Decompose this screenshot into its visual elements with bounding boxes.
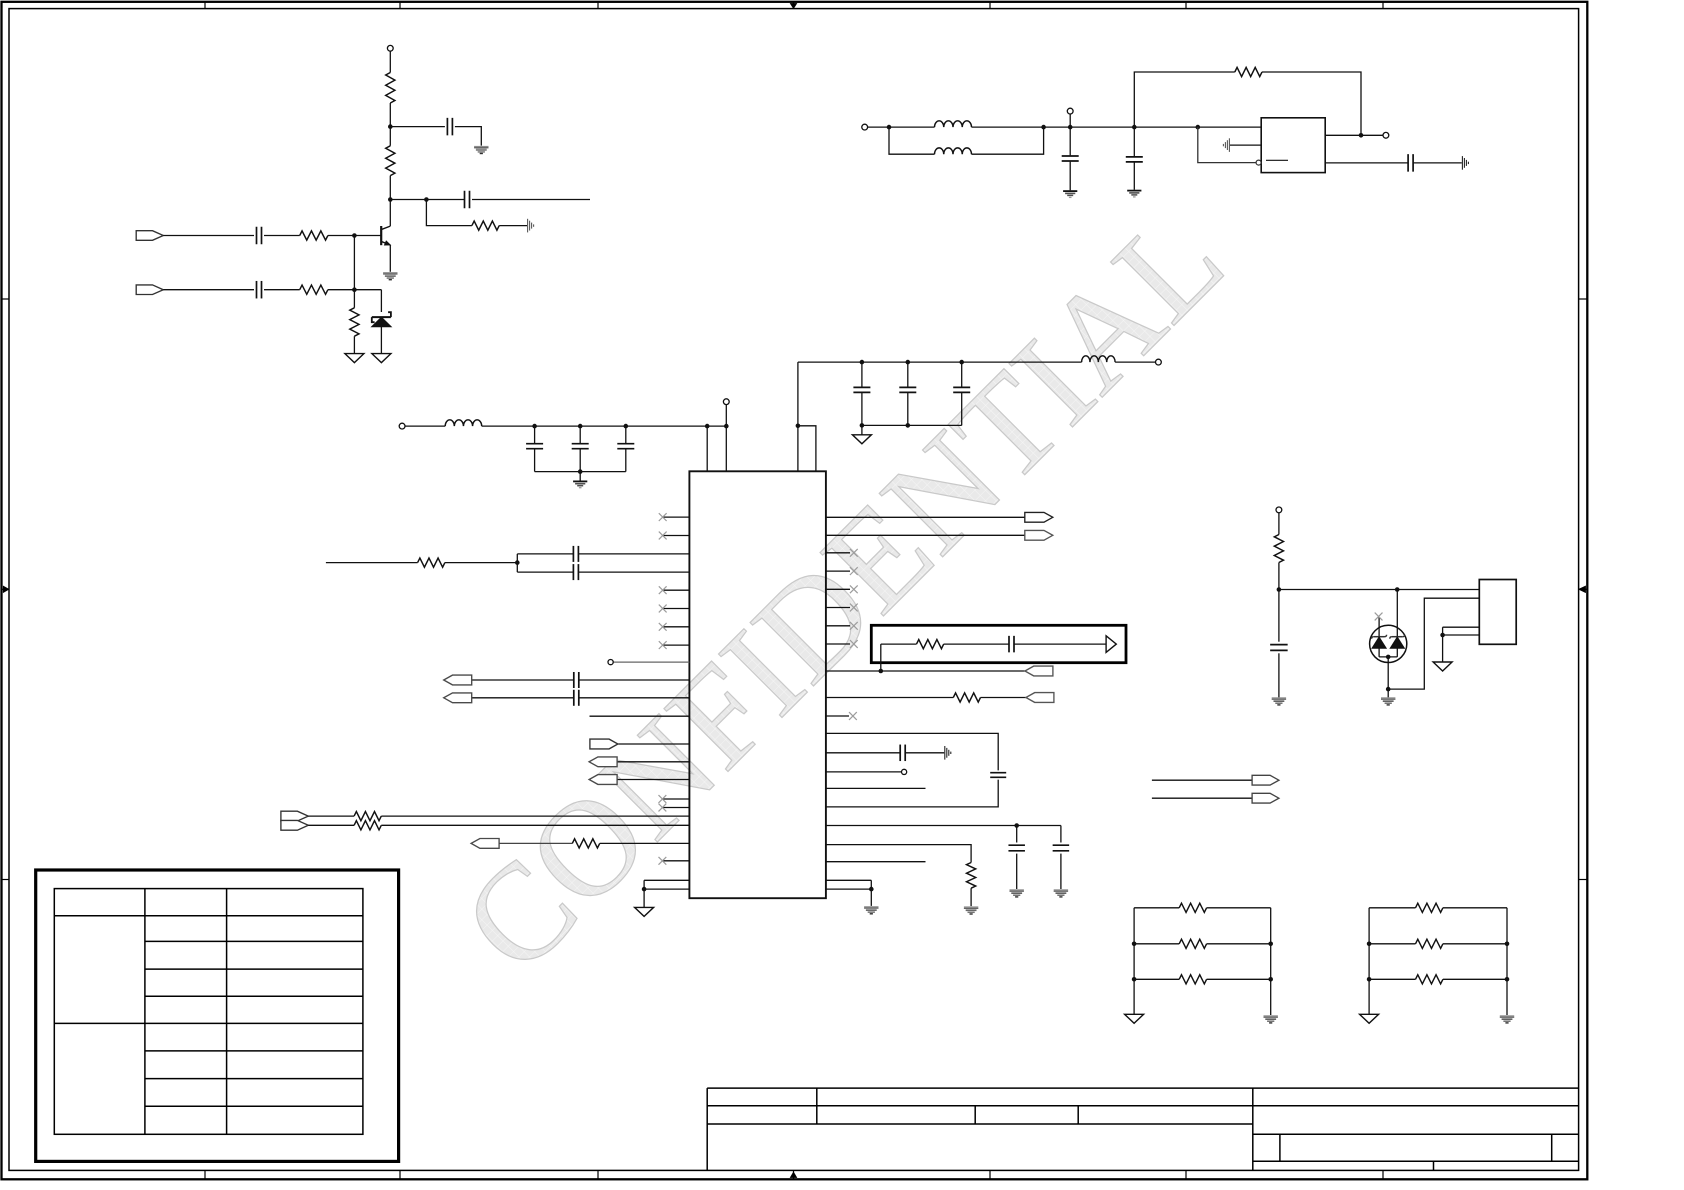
port P5 (filtered rail tap) xyxy=(1067,108,1073,114)
ground (earth, gray) emitter xyxy=(383,272,397,274)
feedback wire up/over xyxy=(1134,72,1235,127)
wire cap bus 2 xyxy=(862,424,962,426)
title block right cells xyxy=(1279,1134,1281,1161)
ground (rotated earth) after R4 xyxy=(527,219,529,233)
wire xyxy=(264,289,300,291)
wire xyxy=(868,126,889,128)
wire xyxy=(579,472,581,481)
wire IC top pin A xyxy=(706,426,708,471)
wire emitter xyxy=(389,245,391,272)
regulator U2 body xyxy=(1261,118,1325,173)
port P9 (rail2 source) xyxy=(1156,359,1162,365)
wire xyxy=(889,126,935,128)
port P8 (rail1 tap) xyxy=(723,399,729,405)
U1 left pin 15 with input tag xyxy=(617,779,689,781)
port P1 (VCC input, top-left) xyxy=(387,45,393,51)
node (IC supply pin A) xyxy=(705,424,710,429)
U1 right pin 15 (open) xyxy=(826,787,926,789)
net stub pair to tags (right middle) xyxy=(1152,779,1252,781)
ground (triangle) rnet left xyxy=(1360,1014,1379,1023)
wire xyxy=(389,127,391,146)
wire xyxy=(499,225,527,227)
wire + resistor R11 (u1 pin19) xyxy=(308,824,354,826)
zone arrow left center xyxy=(2,588,10,590)
node C10 xyxy=(624,424,629,429)
zone arrow bottom center xyxy=(793,1170,795,1179)
U1 right pin 5 (NC) xyxy=(826,588,850,590)
node (C5 tap) xyxy=(1068,125,1073,130)
port tag (diff2 b) xyxy=(444,693,472,703)
revision table grid xyxy=(54,889,363,1135)
rnet bottom row xyxy=(1369,978,1415,980)
ground (earth gray) U1 right xyxy=(864,906,878,908)
U1 right pin 20/21 to ground xyxy=(826,879,871,881)
U1 right pin 3 (NC) xyxy=(826,552,850,554)
D2 right diode xyxy=(1396,590,1398,638)
rnet mid row xyxy=(1134,943,1179,945)
U1 left pins 10-11 diff pair 2 with caps C16 C17 xyxy=(579,679,690,681)
wire diode common xyxy=(1379,656,1397,658)
node C12 xyxy=(906,360,911,365)
pin bubble (active-low enable) xyxy=(1256,160,1261,165)
node (IC supply pin B) xyxy=(724,424,729,429)
ground (earth black) under C5 xyxy=(1063,190,1077,192)
zone ticks right edge xyxy=(1579,298,1588,300)
U1 left pin 20 with tag + resistor R12 xyxy=(471,839,499,849)
U1 right pin 13 cap C20 to rotated earth xyxy=(826,752,900,754)
inductor L4 (rail2) xyxy=(1082,356,1116,362)
revision table outer frame xyxy=(36,870,399,1161)
U1 right pin 17 to caps C21 C22 xyxy=(826,825,1061,827)
U1 left pin 1 (NC) xyxy=(663,516,690,518)
wire xyxy=(389,103,391,127)
resistor R8 (feedback) xyxy=(1235,67,1262,76)
inductor L1 xyxy=(935,121,972,127)
node xyxy=(1386,687,1391,692)
capacitor C10 xyxy=(625,426,627,443)
IC U1 body xyxy=(689,471,826,898)
callout wire with resistor R13 and cap C18 xyxy=(881,643,917,645)
ground (triangle) J1 xyxy=(1433,662,1452,671)
node xyxy=(1386,655,1391,660)
wire rail 2 xyxy=(798,361,1082,363)
resistor R4 (to AC ground) xyxy=(472,221,499,230)
U1 left pin 8 (NC) xyxy=(663,644,690,646)
ground (rotated earth) at U2 bypass pin xyxy=(1230,144,1261,146)
node xyxy=(906,423,911,428)
wire cap bus xyxy=(535,471,626,473)
title block bottom strip tick xyxy=(1433,1161,1435,1170)
node (diode tap) xyxy=(1395,587,1400,592)
U1 right pin 2 to tag xyxy=(826,534,1025,536)
wire xyxy=(1387,689,1389,697)
node (bus center) xyxy=(578,469,583,474)
U1 left pin 22 (ground) xyxy=(644,879,689,881)
wire base-bias vertical xyxy=(353,236,355,290)
wire xyxy=(1361,134,1383,136)
resistor R7 (bias to ground) xyxy=(353,290,355,308)
dual photodiode D2 (circle) xyxy=(1370,625,1407,662)
node xyxy=(1440,633,1445,638)
ground (rotated earth) after C7 xyxy=(1461,156,1463,170)
U1 right pin 10 with resistor R14 to tag xyxy=(826,697,953,699)
wire xyxy=(643,889,645,907)
wire xyxy=(972,127,1044,154)
U1 left pin 21 (NC) xyxy=(662,860,689,862)
wire xyxy=(1278,513,1280,535)
U1 right pin 18 with resistor R15 to ground xyxy=(826,845,971,863)
wire xyxy=(972,126,1044,128)
zone arrow right center xyxy=(1579,588,1588,590)
inductor L2 xyxy=(935,148,972,154)
resistor R6 (base series 2) xyxy=(300,285,328,294)
wire xyxy=(390,126,445,128)
rnet top row xyxy=(1134,907,1179,909)
port tag (diff2 a) xyxy=(444,675,472,685)
connector J1 lower pins to ground xyxy=(1443,626,1480,628)
ground (earth gray) C22 xyxy=(1054,889,1068,891)
capacitor C1 (bypass) xyxy=(446,118,448,136)
zone ticks left edge xyxy=(2,298,10,300)
capacitor C9 xyxy=(579,426,581,443)
wire xyxy=(1278,563,1280,590)
resistor R16 (bias) xyxy=(1274,535,1283,563)
wire lower branch via L2 xyxy=(889,127,935,154)
ground (earth, gray) for C1 xyxy=(474,146,488,148)
node xyxy=(860,423,865,428)
port P6 (regulated output) xyxy=(1383,132,1389,138)
U1 right pin 8 (NC) xyxy=(826,643,850,645)
U1 right pin 12 loop with cap C19 xyxy=(826,733,998,770)
node diff1 merge xyxy=(515,560,520,565)
ground (triangle) rail2 caps xyxy=(852,435,871,444)
wire xyxy=(163,289,254,291)
wire to inverted pin xyxy=(1198,127,1256,163)
wire xyxy=(798,426,816,472)
ground (triangle) under D1 xyxy=(372,354,391,363)
U1 right pin 11 (NC) xyxy=(826,715,849,717)
inductor L3 (rail1 filter) xyxy=(445,420,482,426)
capacitor C11 xyxy=(861,362,863,387)
node C9 xyxy=(578,424,583,429)
wire rail1 xyxy=(482,425,727,427)
U1 left pin 7 (NC) xyxy=(663,626,690,628)
wire xyxy=(328,289,382,291)
node (bias junction) xyxy=(352,287,357,292)
U1 right pin 6 (NC) xyxy=(826,607,850,609)
port P10 (detector bias) xyxy=(1276,507,1282,513)
capacitor C12 xyxy=(907,362,909,387)
U1 left pin 5 (NC) xyxy=(663,589,690,591)
resistor R1 (collector pull-up upper) xyxy=(386,73,395,104)
zener diode D1 xyxy=(372,316,391,318)
capacitor C6 (regulator input cap) xyxy=(1133,127,1135,156)
rnet left rail xyxy=(1368,908,1370,1014)
U1 left pin 2 (NC) xyxy=(663,535,690,537)
node xyxy=(1014,823,1019,828)
wire xyxy=(264,235,300,237)
capacitor C3 (input 1 coupling) xyxy=(256,227,258,245)
node (L1/L2 split) xyxy=(887,125,892,130)
ground (earth gray) C21 xyxy=(1010,889,1024,891)
U1 left pins 3-4 diff pair with caps C14 C15 xyxy=(579,553,690,555)
node (collector) xyxy=(388,197,393,202)
ground (earth gray) D2 xyxy=(1381,697,1395,699)
node C11 xyxy=(860,360,865,365)
capacitor C4 (input 2 coupling) xyxy=(256,281,258,299)
port P7 (rail 1 input) xyxy=(399,423,405,429)
port P2 (input 1) xyxy=(136,231,163,241)
wire U2 lower output to C7 xyxy=(1325,162,1407,164)
no-connect X above D2 xyxy=(1375,613,1383,621)
callout riser xyxy=(880,644,882,671)
wire xyxy=(326,562,418,564)
resistor R9 (diff1 series) xyxy=(418,558,445,567)
U1 left pin 12 (open wire) xyxy=(590,715,690,717)
node (output/feedback) xyxy=(1359,133,1364,138)
node (regulator input) xyxy=(1132,125,1137,130)
U1 left pin 9 (test point circle) xyxy=(614,661,690,663)
U1 left pin 14 with input tag xyxy=(617,761,689,763)
U1 left pin 16 (NC) xyxy=(662,798,689,800)
ground (triangle) under R7 xyxy=(345,354,364,363)
callout arrow xyxy=(1106,636,1116,653)
capacitor C5 (input filter) xyxy=(1069,127,1071,155)
node (regulator enable tap) xyxy=(1196,125,1201,130)
title block main divider xyxy=(1252,1088,1254,1170)
wire D2 return to connector xyxy=(1388,598,1479,689)
wire output net xyxy=(472,199,590,201)
title block row lines left xyxy=(707,1105,1253,1107)
node (R1/R2/C1) xyxy=(388,124,393,129)
wire xyxy=(1414,162,1462,164)
U1 right pin 9 to tag xyxy=(826,670,1026,672)
ground (triangle) U1 left xyxy=(635,907,654,916)
zone ticks top edge xyxy=(204,2,206,9)
node (rail2 corner) xyxy=(796,424,801,429)
node (base) xyxy=(352,233,357,238)
rnet left rail xyxy=(1133,908,1135,1014)
wire xyxy=(389,176,391,200)
capacitor C23 (bias filter) xyxy=(1278,590,1280,642)
wire xyxy=(1044,126,1071,128)
ground (earth gray) R15 xyxy=(964,906,978,908)
transistor Q1 (NPN) xyxy=(380,226,382,245)
ground (earth gray) rnet right xyxy=(1264,1015,1278,1017)
wire xyxy=(405,425,445,427)
node xyxy=(642,887,647,892)
ground (earth black) rail1 caps xyxy=(573,480,587,482)
wire xyxy=(1115,361,1155,363)
wire xyxy=(328,235,381,237)
rnet top row xyxy=(1369,907,1415,909)
wire xyxy=(455,127,481,146)
rnet right rail xyxy=(1506,908,1508,1015)
wire branch to R4 xyxy=(426,200,472,226)
ground (earth black) under C6 xyxy=(1127,190,1141,192)
capacitor C8 xyxy=(534,426,536,443)
rnet bottom row xyxy=(1134,978,1179,980)
U1 right pin 19 (open) xyxy=(826,861,926,863)
ground (triangle) rnet left xyxy=(1125,1014,1144,1023)
node C8 xyxy=(532,424,537,429)
port P3 (input 2) xyxy=(136,285,163,295)
U1 right pin 4 (NC) xyxy=(826,570,850,572)
node (output branch) xyxy=(424,197,429,202)
U1 right pin 7 (NC) xyxy=(826,625,850,627)
U1 left pin 13 with output tag xyxy=(617,743,689,745)
U1 left pin 17 (NC) xyxy=(662,807,689,809)
rnet right rail xyxy=(1270,908,1272,1015)
zone arrow top center xyxy=(793,2,795,9)
wire xyxy=(1262,72,1361,135)
resistor R2 (collector pull-up lower) xyxy=(386,146,395,176)
wire into regulator pin1 xyxy=(1198,126,1261,128)
node (L1/L2 join) xyxy=(1041,125,1046,130)
zone ticks bottom edge xyxy=(204,1170,206,1179)
resistor R5 (base series 1) xyxy=(300,231,328,240)
ground (earth gray) rnet right xyxy=(1500,1015,1514,1017)
U1 left pin 6 (NC) xyxy=(663,608,690,610)
wire collector to output cap xyxy=(390,199,426,201)
wire U2 output xyxy=(1325,134,1361,136)
wire xyxy=(163,235,254,237)
title block vertical dividers left xyxy=(816,1088,818,1124)
callout box (critical net) xyxy=(871,625,1126,662)
U1 right pin 14 (circle end) xyxy=(826,771,901,773)
wire + resistor R10 (u1 pin18) xyxy=(308,815,354,817)
capacitor C2 (output coupling) xyxy=(464,191,466,209)
wire IC top pin B xyxy=(725,426,727,471)
wire bias net to connector xyxy=(1279,589,1479,591)
node (callout tap) xyxy=(879,669,884,674)
wire xyxy=(1134,126,1198,128)
wire to zener xyxy=(380,290,382,312)
rnet mid row xyxy=(1369,943,1415,945)
title block right rows xyxy=(1253,1105,1579,1107)
D2 left diode xyxy=(1378,617,1380,637)
capacitor C13 xyxy=(961,362,963,387)
capacitor C7 xyxy=(1407,154,1409,172)
wire xyxy=(1070,126,1134,128)
U1 right pin 1 to tag xyxy=(826,516,1025,518)
wire xyxy=(389,51,391,72)
ground (earth gray) C23 xyxy=(1272,697,1286,699)
port P4 (raw supply input) xyxy=(862,124,868,130)
node (bias net) xyxy=(1277,587,1282,592)
connector J1 body xyxy=(1479,580,1516,645)
node C13 xyxy=(959,360,964,365)
title block outline xyxy=(707,1087,1578,1089)
active-low overline inside U2 xyxy=(1266,159,1288,161)
double port tag (control pair) xyxy=(281,811,308,821)
node xyxy=(869,887,874,892)
wire rail2 down to IC xyxy=(797,362,799,471)
wire xyxy=(861,425,863,434)
